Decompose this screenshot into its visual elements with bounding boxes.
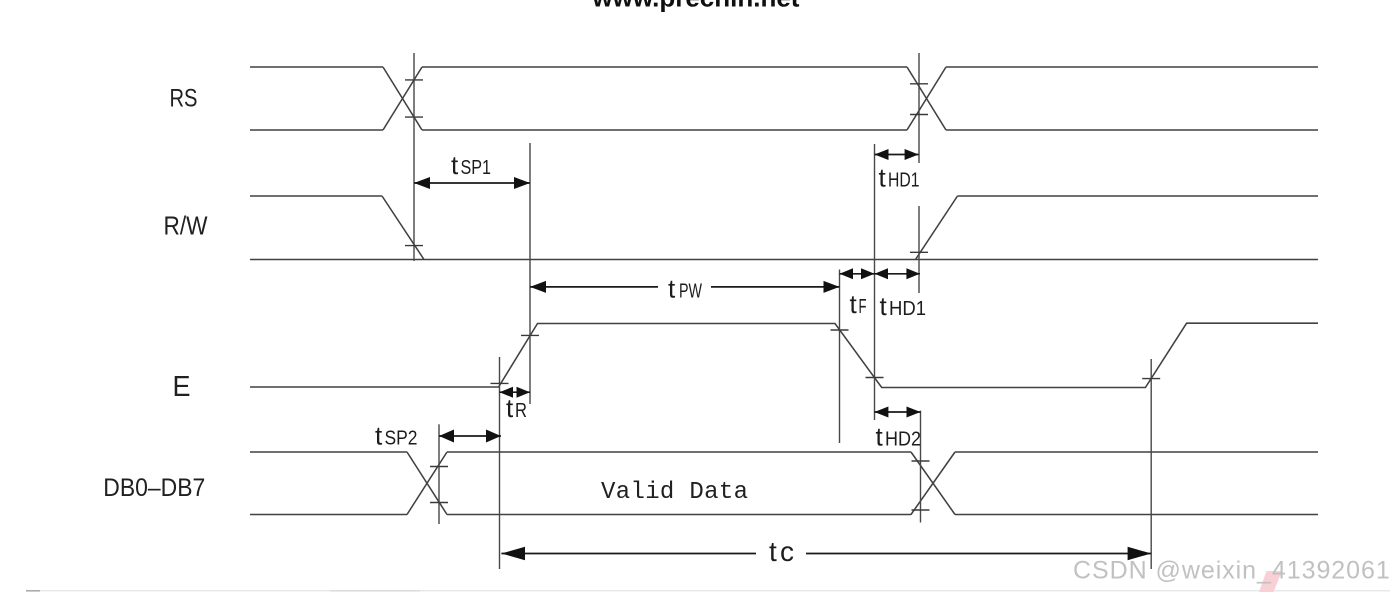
svg-text:t: t [506, 393, 514, 423]
svg-text:t: t [375, 421, 383, 451]
svg-text:R/W: R/W [164, 211, 208, 241]
svg-text:SP2: SP2 [385, 428, 418, 450]
svg-text:t: t [769, 536, 777, 567]
svg-text:E: E [173, 371, 191, 403]
svg-text:t: t [879, 163, 887, 193]
svg-text:Valid Data: Valid Data [601, 479, 748, 506]
svg-text:HD1: HD1 [888, 170, 920, 192]
svg-text:CSDN @weixin_41392061: CSDN @weixin_41392061 [1073, 557, 1390, 585]
svg-text:HD2: HD2 [885, 429, 921, 451]
svg-text:SP1: SP1 [461, 157, 492, 179]
svg-text:DB0–DB7: DB0–DB7 [103, 474, 205, 502]
svg-text:F: F [859, 296, 867, 318]
svg-text:RS: RS [170, 85, 198, 113]
svg-text:R: R [515, 400, 527, 422]
svg-text:www.prechin.net: www.prechin.net [591, 0, 799, 12]
svg-text:c: c [780, 536, 794, 567]
svg-text:t: t [880, 291, 888, 321]
svg-text:t: t [850, 289, 858, 319]
svg-text:HD1: HD1 [889, 298, 926, 320]
svg-text:PW: PW [679, 281, 702, 303]
svg-text:t: t [451, 150, 459, 180]
svg-text:t: t [876, 422, 884, 452]
svg-text:t: t [668, 274, 676, 304]
